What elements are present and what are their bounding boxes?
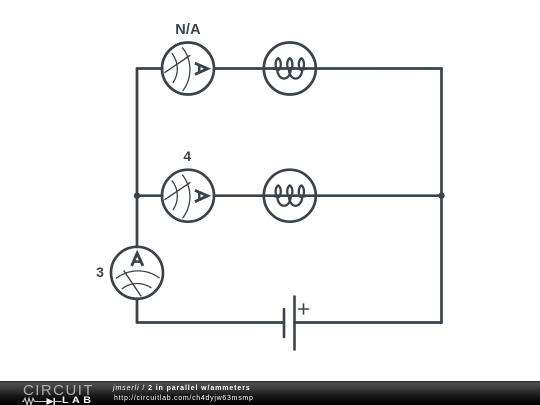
wire: middle row from AM2 through lamp L2 to right bus [214, 194, 442, 197]
footer credit line [113, 385, 251, 392]
wire: right bus vertical [440, 69, 443, 323]
battery V1 plus sign [299, 304, 309, 314]
svg-text:4: 4 [183, 148, 191, 164]
lamp L1 (top row) [264, 43, 316, 95]
ammeter AM1 (top row, reading N/A) [162, 43, 214, 95]
wire: top row from AM1 through lamp L1 to right bus [214, 67, 442, 70]
svg-text:N/A: N/A [175, 22, 201, 38]
footer url line [114, 395, 254, 402]
wire: left bus from AM3 bottom down to bottom wire [136, 299, 139, 323]
ammeter AM3 (left branch, reading 3) [111, 247, 163, 299]
wire: bottom wire from battery V1 to right bus [295, 321, 442, 324]
ammeter AM2 (middle row, reading 4) [162, 170, 214, 222]
battery V1 positive plate (tall) [293, 297, 296, 350]
CircuitLab logo wordmark LAB [62, 396, 94, 405]
footer bar [0, 381, 540, 405]
wire: bottom wire from left bus to battery V1 [137, 321, 284, 324]
battery V1 negative plate (short) [283, 309, 286, 337]
wire: top row left stub from left bus to ammeter AM1 [137, 67, 162, 70]
node: junction dot on left bus at middle row [134, 193, 140, 199]
node: junction dot on right bus at middle row [438, 193, 444, 199]
lamp L2 (middle row) [264, 170, 316, 222]
wire: left bus vertical from top row down to ammeter AM3 [136, 69, 139, 248]
CircuitLab logo wordmark CIRCUIT [23, 383, 94, 398]
wire: middle row stub from junction to ammeter AM2 [137, 194, 162, 197]
CircuitLab logo resistor zigzag and diode [22, 397, 62, 405]
svg-text:3: 3 [96, 264, 104, 280]
